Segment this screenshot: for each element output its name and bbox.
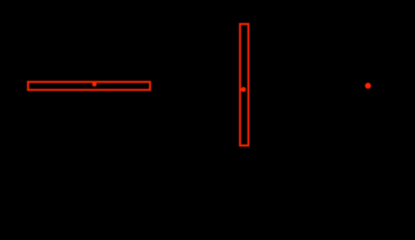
junction dot on R1 top edge xyxy=(92,82,97,87)
schematic canvas xyxy=(0,0,415,149)
junction dot on R2 left edge xyxy=(241,87,246,92)
resistor R2 (vertical body outline) xyxy=(240,24,248,146)
resistor R1 (horizontal body outline) xyxy=(28,82,150,90)
node dot (isolated pad/via) xyxy=(365,83,371,89)
